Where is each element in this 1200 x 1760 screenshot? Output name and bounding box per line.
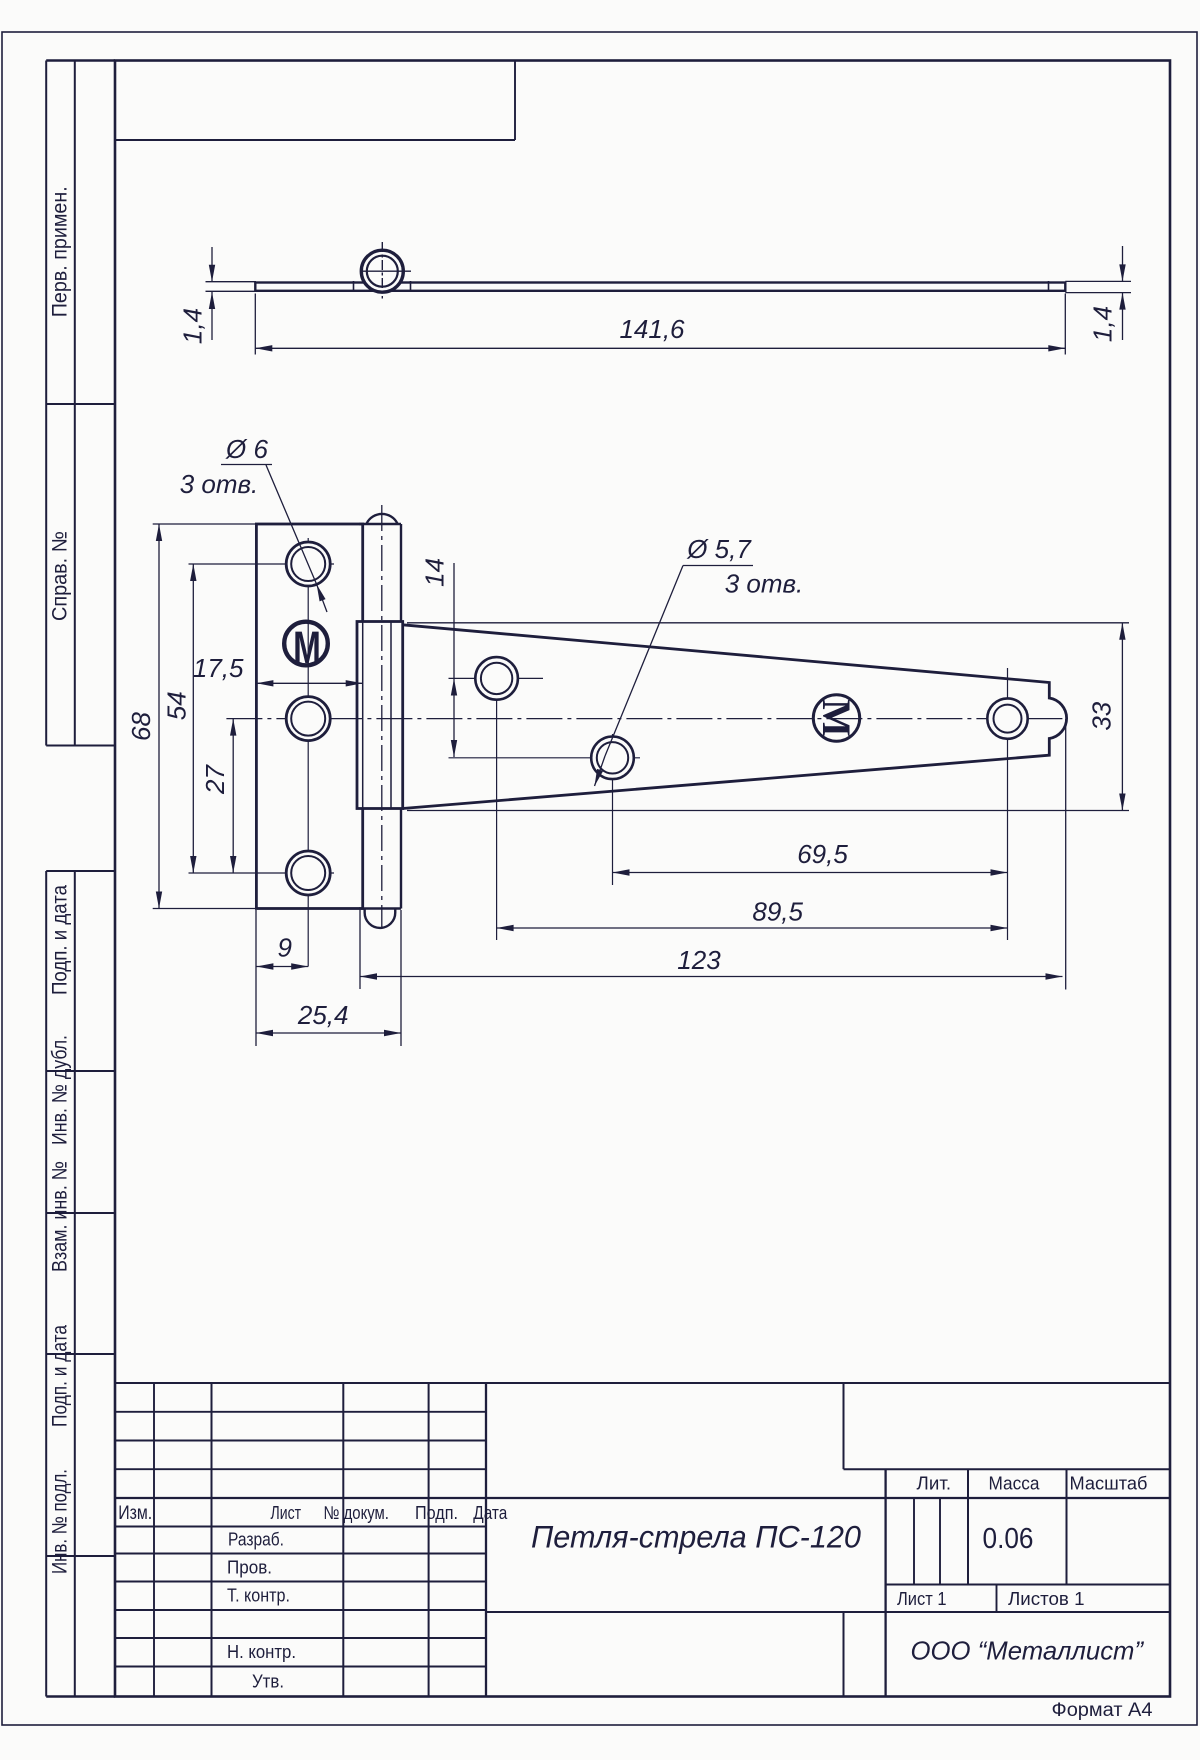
svg-text:123: 123 xyxy=(677,945,721,975)
svg-text:Масштаб: Масштаб xyxy=(1070,1473,1148,1494)
svg-text:Ø 5,7: Ø 5,7 xyxy=(686,534,752,564)
svg-text:Подп. и дата: Подп. и дата xyxy=(48,885,71,995)
svg-text:Подп. и дата: Подп. и дата xyxy=(48,1325,71,1427)
svg-text:9: 9 xyxy=(277,933,291,963)
svg-text:Формат А4: Формат А4 xyxy=(1052,1700,1153,1721)
svg-text:1,4: 1,4 xyxy=(1088,306,1118,342)
svg-text:1,4: 1,4 xyxy=(178,308,208,344)
svg-text:Н. контр.: Н. контр. xyxy=(227,1641,296,1662)
svg-text:Т. контр.: Т. контр. xyxy=(227,1585,290,1606)
svg-text:M: M xyxy=(293,623,321,673)
svg-text:M: M xyxy=(814,699,859,737)
svg-text:68: 68 xyxy=(126,712,156,741)
svg-text:Ø 6: Ø 6 xyxy=(225,434,268,464)
svg-text:14: 14 xyxy=(420,558,450,587)
svg-text:Изм.: Изм. xyxy=(118,1503,152,1524)
svg-text:Пров.: Пров. xyxy=(227,1557,272,1578)
svg-text:Листов 1: Листов 1 xyxy=(1008,1588,1085,1609)
svg-text:Петля-стрела ПС-120: Петля-стрела ПС-120 xyxy=(531,1519,861,1555)
svg-text:141,6: 141,6 xyxy=(619,314,685,344)
svg-text:Масса: Масса xyxy=(989,1473,1041,1494)
svg-text:27: 27 xyxy=(200,764,230,795)
svg-text:Справ. №: Справ. № xyxy=(48,531,71,621)
svg-text:3 отв.: 3 отв. xyxy=(725,569,804,599)
svg-text:89,5: 89,5 xyxy=(752,897,803,927)
svg-text:Инв. № дубл.: Инв. № дубл. xyxy=(48,1035,71,1145)
svg-text:25,4: 25,4 xyxy=(297,1000,349,1030)
svg-text:3 отв.: 3 отв. xyxy=(180,469,259,499)
svg-text:ООО “Металлист”: ООО “Металлист” xyxy=(911,1636,1145,1666)
svg-text:Инв. № подл.: Инв. № подл. xyxy=(48,1469,71,1574)
svg-text:0.06: 0.06 xyxy=(983,1523,1034,1555)
svg-text:Взам. инв. №: Взам. инв. № xyxy=(48,1161,71,1272)
svg-text:Лист 1: Лист 1 xyxy=(897,1588,947,1609)
svg-text:Лит.: Лит. xyxy=(917,1473,952,1494)
svg-text:54: 54 xyxy=(162,691,192,720)
svg-text:Подп.: Подп. xyxy=(415,1502,458,1523)
svg-text:Дата: Дата xyxy=(473,1502,508,1523)
svg-text:Лист: Лист xyxy=(271,1502,302,1523)
svg-text:Разраб.: Разраб. xyxy=(228,1529,284,1550)
svg-text:№ докум.: № докум. xyxy=(323,1502,389,1523)
svg-text:17,5: 17,5 xyxy=(193,653,244,683)
svg-text:Перв. примен.: Перв. примен. xyxy=(48,186,71,317)
svg-text:33: 33 xyxy=(1087,701,1117,730)
svg-text:Утв.: Утв. xyxy=(252,1671,284,1692)
svg-text:69,5: 69,5 xyxy=(797,839,848,869)
